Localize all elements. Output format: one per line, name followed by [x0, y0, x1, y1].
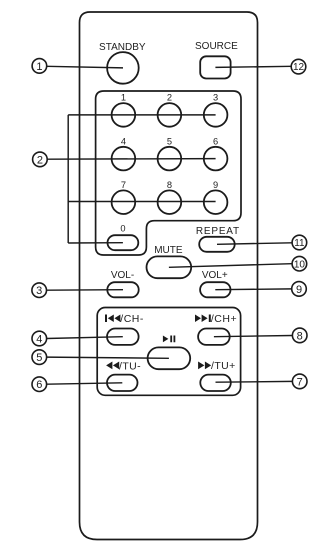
row 7-9 line — [68, 201, 215, 203]
bracket vertical — [67, 115, 69, 243]
callout 10 — [292, 256, 307, 271]
CH+ button — [198, 329, 230, 345]
callout 9 — [292, 282, 307, 297]
svg-text:2: 2 — [167, 93, 172, 103]
MUTE button — [147, 256, 192, 278]
row 4-6 line from 2 — [47, 158, 216, 161]
svg-text:0: 0 — [120, 223, 125, 233]
line 9 -> VOL+ — [215, 288, 291, 291]
svg-text:5: 5 — [167, 136, 172, 146]
key labels 1-9, 0 — [120, 93, 218, 234]
SOURCE button — [200, 56, 230, 78]
svg-text:1: 1 — [36, 61, 42, 73]
svg-text:8: 8 — [167, 180, 172, 190]
line 4 -> CH- — [47, 337, 123, 339]
callout numbers — [36, 61, 305, 391]
callout 7 — [292, 374, 307, 389]
line 6 -> TU- — [47, 383, 123, 384]
svg-text:VOL+: VOL+ — [202, 270, 228, 281]
svg-text:/TU-: /TU- — [119, 360, 141, 372]
svg-text:8: 8 — [297, 330, 303, 342]
svg-text:6: 6 — [36, 379, 42, 391]
callout 4 — [32, 331, 47, 346]
svg-text:REPEAT: REPEAT — [196, 226, 240, 237]
svg-text:4: 4 — [121, 136, 126, 146]
line 3 -> VOL- — [46, 289, 123, 292]
button labels — [99, 41, 240, 281]
svg-text:5: 5 — [36, 352, 42, 364]
callout lines — [46, 66, 292, 384]
VOL+ button — [200, 282, 230, 297]
icon |<< (prev/CH-) — [105, 315, 120, 323]
0 button — [108, 235, 139, 250]
svg-text:9: 9 — [296, 284, 302, 296]
svg-text:3: 3 — [213, 93, 218, 103]
svg-text:MUTE: MUTE — [154, 245, 183, 256]
callout 11 — [292, 235, 307, 250]
line 11 -> REPEAT — [217, 243, 292, 245]
icon play/pause — [163, 336, 175, 343]
line 5 -> play — [47, 357, 169, 358]
callout 6 — [32, 377, 47, 392]
line 1 -> STANDBY — [47, 66, 123, 68]
svg-text:STANDBY: STANDBY — [99, 42, 146, 53]
svg-text:7: 7 — [121, 180, 126, 190]
svg-text:6: 6 — [213, 136, 218, 146]
row 0 line — [68, 242, 123, 244]
svg-text:11: 11 — [294, 238, 305, 249]
callout 2 — [33, 152, 48, 167]
svg-text:2: 2 — [37, 154, 43, 166]
transport icons + labels — [105, 315, 211, 370]
STANDBY button — [107, 52, 139, 84]
svg-text:7: 7 — [297, 376, 303, 388]
line 10 -> MUTE — [169, 264, 292, 268]
svg-text:SOURCE: SOURCE — [195, 41, 238, 52]
icon >>| (next/CH+) — [195, 315, 211, 323]
svg-text:VOL-: VOL- — [111, 270, 134, 281]
remote body — [80, 12, 258, 540]
svg-text:1: 1 — [121, 93, 126, 103]
svg-text:9: 9 — [213, 180, 218, 190]
line 8 -> CH+ — [214, 336, 292, 337]
callout 12 — [291, 59, 306, 74]
keypad circles 1-9 — [112, 103, 136, 127]
play/pause button — [148, 347, 191, 369]
TU+ button — [200, 375, 231, 391]
svg-text:/CH+: /CH+ — [211, 313, 237, 325]
transport group outline — [97, 308, 240, 396]
icon >> (TU+) — [198, 362, 211, 370]
line 7 -> TU+ — [216, 380, 293, 383]
callout 1 — [32, 59, 47, 74]
callout 5 — [32, 350, 47, 365]
svg-text:3: 3 — [36, 285, 42, 297]
CH- button — [107, 329, 139, 345]
icon << (TU-) — [106, 362, 119, 370]
svg-text:/CH-: /CH- — [120, 313, 144, 325]
callout 8 — [292, 328, 307, 343]
REPEAT button — [199, 237, 235, 252]
svg-text:12: 12 — [293, 62, 305, 73]
svg-text:10: 10 — [294, 259, 306, 270]
keypad group outline — [96, 91, 241, 255]
svg-text:/TU+: /TU+ — [211, 360, 236, 372]
callout 3 — [32, 283, 47, 298]
svg-text:4: 4 — [36, 333, 42, 345]
callout circles — [32, 59, 307, 392]
TU- button — [107, 375, 138, 391]
buttons — [107, 52, 235, 391]
VOL- button — [107, 282, 138, 297]
line 12 -> SOURCE — [215, 66, 291, 67]
row 1-3 line — [68, 114, 215, 116]
